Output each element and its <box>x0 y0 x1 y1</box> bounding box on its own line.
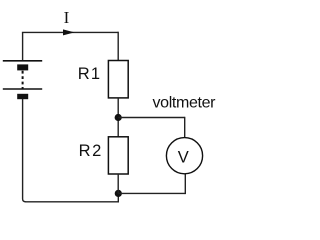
battery cell 1 short thick plate <box>17 64 28 70</box>
wire R1 top lead <box>117 32 119 61</box>
battery cell 2 long plate <box>3 88 42 90</box>
resistor R2 body <box>108 137 128 174</box>
svg-text:I: I <box>64 8 70 27</box>
battery B1 (two cells with dashed continuation) <box>3 61 42 99</box>
wire left vertical from battery positive up to top rail <box>22 32 24 60</box>
node B junction dot <box>115 190 122 197</box>
wire voltmeter tap horizontal <box>118 117 185 119</box>
svg-text:R2: R2 <box>79 142 103 160</box>
wire jog up from bottom rail to node B <box>117 193 119 202</box>
svg-text:R1: R1 <box>78 65 102 83</box>
voltmeter M1 circle <box>166 138 202 174</box>
current arrow on top rail <box>63 29 75 35</box>
wire between R1 and R2 through node A <box>117 98 119 137</box>
resistor R1 body <box>108 61 128 98</box>
battery cell 1 long plate <box>3 60 42 62</box>
wire voltmeter top lead <box>184 117 186 138</box>
node A junction dot <box>115 114 122 121</box>
wire R2 bottom lead <box>117 174 119 193</box>
svg-text:V: V <box>178 149 189 167</box>
battery cell 2 short thick plate <box>17 94 28 99</box>
wire bottom horizontal right to voltmeter <box>118 192 185 194</box>
svg-text:voltmeter: voltmeter <box>153 95 217 112</box>
wire top horizontal rail <box>22 31 118 33</box>
wire voltmeter bottom lead <box>184 174 186 195</box>
wire left vertical from battery negative down to bottom rail <box>23 99 26 202</box>
wire bottom horizontal left section <box>25 201 118 203</box>
battery dashed link between cells <box>22 71 24 89</box>
